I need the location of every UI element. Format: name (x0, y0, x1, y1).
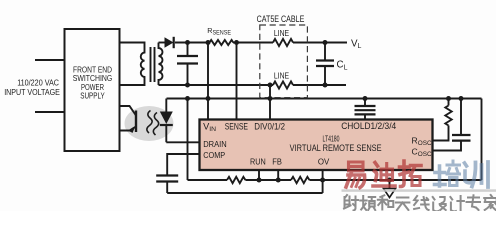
svg-text:VIRTUAL REMOTE SENSE: VIRTUAL REMOTE SENSE (290, 143, 382, 153)
svg-text:110/220 VAC: 110/220 VAC (17, 77, 59, 87)
svg-text:OV: OV (318, 156, 330, 166)
svg-text:FRONT END: FRONT END (73, 65, 112, 74)
svg-text:SWITCHING: SWITCHING (73, 74, 113, 83)
svg-text:DIV0/1/2: DIV0/1/2 (254, 121, 285, 131)
svg-text:LINE: LINE (274, 70, 290, 80)
svg-text:FB: FB (272, 156, 282, 166)
svg-text:LINE: LINE (274, 28, 290, 38)
svg-text:CAT5E CABLE: CAT5E CABLE (257, 14, 305, 24)
svg-text:DRAIN: DRAIN (203, 139, 227, 149)
svg-text:SUPPLY: SUPPLY (80, 91, 105, 100)
svg-text:SENSE: SENSE (225, 121, 248, 131)
svg-text:LT4180: LT4180 (323, 133, 340, 143)
svg-text:COMP: COMP (203, 150, 225, 160)
svg-text:INPUT VOLTAGE: INPUT VOLTAGE (4, 87, 60, 97)
svg-text:RUN: RUN (250, 156, 266, 166)
svg-text:CHOLD1/2/3/4: CHOLD1/2/3/4 (341, 121, 396, 131)
